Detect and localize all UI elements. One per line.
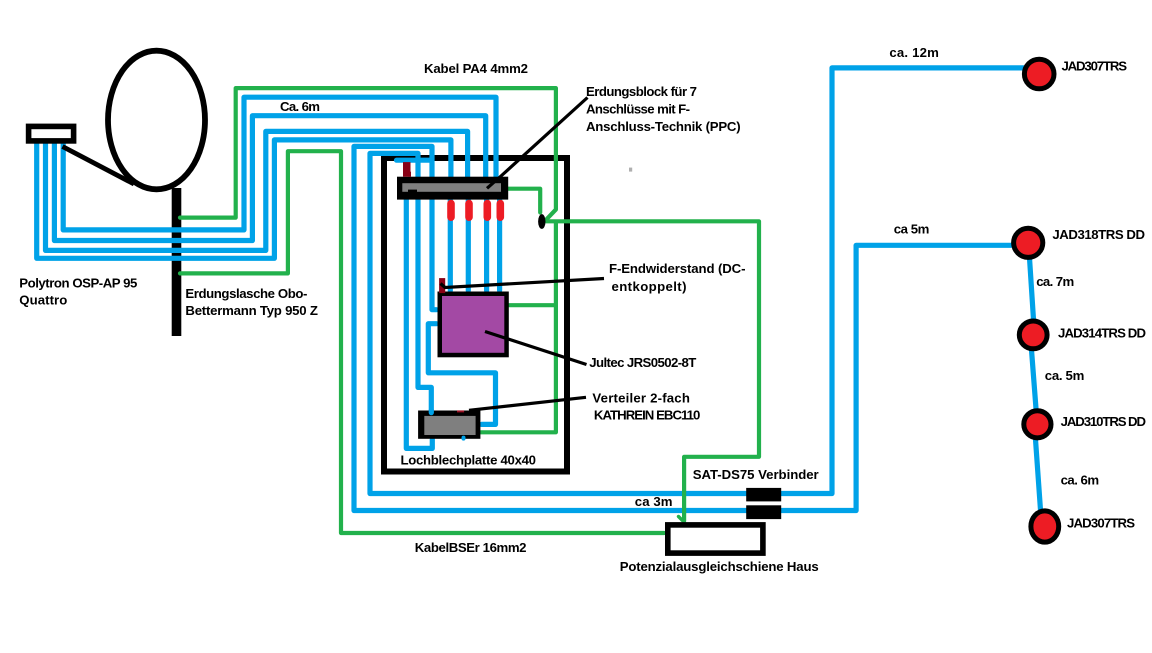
socket JAD310TRS DD xyxy=(1024,411,1051,438)
Erdungsblock notch xyxy=(408,190,417,193)
wire receiver chain JAD318 to JAD314 xyxy=(1030,258,1034,320)
wire Jultec output stub 1 xyxy=(448,200,453,291)
ground wire KabelBSEr 16mm2 xyxy=(180,151,664,533)
satellite dish reflector xyxy=(108,51,205,190)
maroon mark above block xyxy=(403,162,411,177)
wire Jultec output stub 2 xyxy=(466,200,471,291)
svg-text:ca 3m: ca 3m xyxy=(635,494,673,509)
wire block to Verteiler bottom port xyxy=(406,200,432,449)
svg-text:ca. 6m: ca. 6m xyxy=(1061,473,1100,488)
svg-text:Lochblechplatte 40x40: Lochblechplatte 40x40 xyxy=(401,453,537,468)
svg-text:F-Endwiderstand (DC-: F-Endwiderstand (DC- xyxy=(609,261,746,276)
wire block to Jultec input 1 xyxy=(432,200,437,310)
F-Endwiderstand maroon mark xyxy=(439,278,445,293)
socket JAD314TRS DD xyxy=(1019,321,1047,349)
svg-text:JAD307TRS: JAD307TRS xyxy=(1067,516,1135,531)
gray dot artifact xyxy=(629,168,632,172)
LNB feed arm xyxy=(63,147,135,185)
svg-text:ca. 7m: ca. 7m xyxy=(1036,274,1074,289)
svg-text:JAD307TRS: JAD307TRS xyxy=(1062,59,1128,74)
svg-text:Quattro: Quattro xyxy=(19,293,67,308)
ground wire block to node xyxy=(508,189,540,213)
Erdungsblock gray face xyxy=(402,183,501,192)
svg-text:ca 5m: ca 5m xyxy=(894,222,930,237)
wire coax LNB4 xyxy=(63,97,496,230)
svg-text:Ca. 6m: Ca. 6m xyxy=(280,99,320,114)
svg-text:SAT-DS75 Verbinder: SAT-DS75 Verbinder xyxy=(693,467,819,482)
SAT-DS75 Verbinder connector 1 xyxy=(746,488,781,502)
wire stub under box top edge xyxy=(397,158,432,163)
svg-text:Bettermann Typ 950 Z: Bettermann Typ 950 Z xyxy=(185,303,318,318)
ground node xyxy=(538,214,545,229)
svg-text:Erdungsblock für 7: Erdungsblock für 7 xyxy=(586,84,697,99)
svg-text:Kabel PA4 4mm2: Kabel PA4 4mm2 xyxy=(424,61,528,76)
Potenzialausgleichschiene Haus busbar xyxy=(668,525,763,553)
F-connector red sleeve 2 xyxy=(465,204,473,218)
wire Jultec port2 to Verteiler right port xyxy=(428,324,495,425)
ground wire Jultec to PA4 xyxy=(508,303,554,307)
wire tip on Verteiler bottom edge xyxy=(462,438,466,439)
dish mast pole xyxy=(172,188,182,336)
socket JAD307TRS top xyxy=(1024,59,1054,89)
wire coax LNB1 xyxy=(37,140,451,258)
ground wire Kabel PA4 4mm2 upper run xyxy=(180,88,556,219)
wire receiver chain JAD310 to JAD307 xyxy=(1036,440,1041,511)
svg-text:JAD318TRS DD: JAD318TRS DD xyxy=(1052,227,1145,242)
enclosure box Lochblechplatte 40x40 xyxy=(384,158,567,472)
socket JAD307TRS bottom xyxy=(1031,511,1059,542)
Verteiler red mark xyxy=(457,410,464,412)
svg-text:KabelBSEr 16mm2: KabelBSEr 16mm2 xyxy=(415,540,527,555)
svg-text:Polytron OSP-AP 95: Polytron OSP-AP 95 xyxy=(19,276,137,291)
wire receiver chain JAD314 to JAD310 xyxy=(1032,350,1037,409)
LNB Polytron OSP-AP 95 xyxy=(29,126,74,140)
svg-text:ca. 5m: ca. 5m xyxy=(1045,368,1085,383)
ground wire PA4 lower run to Verteiler xyxy=(479,223,556,432)
F-connector red sleeve 3 xyxy=(483,204,491,218)
F-connector red sleeve 4 xyxy=(496,204,504,218)
Erdungsblock body xyxy=(397,177,508,200)
svg-text:Anschluss-Technik (PPC): Anschluss-Technik (PPC) xyxy=(586,119,741,134)
ground wire arrow tail at busbar xyxy=(679,517,685,523)
wire tip on Verteiler top edge xyxy=(429,411,434,413)
wire block to Verteiler top port xyxy=(418,200,431,412)
ground wire node to Potenzialausgleichschiene xyxy=(546,221,760,521)
wire coax LNB3 xyxy=(54,116,485,241)
svg-text:JAD314TRS DD: JAD314TRS DD xyxy=(1058,326,1146,341)
label line F-Endwiderstand xyxy=(441,279,605,288)
wire Jultec output stub 3 xyxy=(484,200,489,291)
svg-text:Verteiler 2-fach: Verteiler 2-fach xyxy=(592,391,690,406)
label line Erdungsblock xyxy=(487,98,588,189)
splitter Verteiler KATHREIN EBC110 body xyxy=(418,411,480,439)
svg-text:Erdungslasche Obo-: Erdungslasche Obo- xyxy=(185,286,307,301)
svg-text:Potenzialausgleichschiene Haus: Potenzialausgleichschiene Haus xyxy=(620,559,819,574)
label line Jultec xyxy=(485,332,587,365)
wire Jultec output stub 4 xyxy=(497,200,502,291)
multiswitch Jultec JRS0502-8T body xyxy=(438,292,509,358)
F-connector red sleeve 1 xyxy=(447,204,455,218)
svg-text:JAD310TRS DD: JAD310TRS DD xyxy=(1061,414,1146,429)
label line Verteiler xyxy=(469,397,586,410)
svg-text:Jultec JRS0502-8T: Jultec JRS0502-8T xyxy=(589,355,696,370)
socket JAD318TRS DD xyxy=(1014,228,1043,257)
SAT-DS75 Verbinder connector 2 xyxy=(746,505,781,519)
svg-text:Anschlüsse mit F-: Anschlüsse mit F- xyxy=(586,102,690,117)
svg-text:ca. 12m: ca. 12m xyxy=(889,45,939,60)
wire coax LNB2 xyxy=(46,131,468,250)
svg-text:KATHREIN EBC110: KATHREIN EBC110 xyxy=(594,408,701,423)
svg-text:entkoppelt): entkoppelt) xyxy=(612,279,687,294)
wire coax block to Jultec loop with ca 5m run xyxy=(354,146,1011,510)
wire coax block to Verteiler loop with ca 12m run xyxy=(370,68,1024,494)
